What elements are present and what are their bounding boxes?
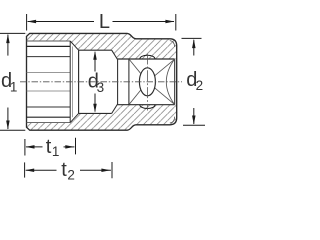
dimension d3 arrow down bbox=[93, 104, 97, 113]
dimension d1 line lower segment bbox=[7, 108, 9, 130]
drive square right edge bbox=[174, 59, 176, 105]
end face rim top-right arc bbox=[170, 41, 175, 47]
bore end second line bbox=[71, 46, 73, 117]
chamber top-right chamfer bbox=[112, 50, 118, 59]
dimension t1 arrow right bbox=[65, 145, 74, 149]
dimension t2 line right segment bbox=[80, 169, 111, 171]
hatched section area: top wall bbox=[27, 33, 177, 59]
dimension d1 extension line bottom bbox=[0, 129, 25, 131]
dimension d2 extension line bottom bbox=[183, 124, 205, 126]
horizontal centerline bbox=[20, 81, 182, 83]
12pt bore inner edge bottom bbox=[27, 122, 71, 124]
svg-text:2: 2 bbox=[196, 78, 204, 93]
12pt bore inner edge top bbox=[27, 40, 71, 42]
drive square left edge bbox=[128, 59, 130, 105]
dimension d3 arrow up bbox=[93, 51, 97, 60]
pin hole ellipse bbox=[139, 68, 155, 96]
12pt profile line top 4 bbox=[27, 72, 71, 74]
12pt profile line bottom 3 bbox=[27, 106, 71, 108]
12pt profile line bottom 4 bbox=[27, 90, 71, 92]
dimension t2 arrow left bbox=[25, 169, 34, 173]
dimension t1 arrow left bbox=[26, 145, 35, 149]
dimension d2 arrow down bbox=[192, 116, 196, 125]
chamber top wall bbox=[79, 49, 112, 51]
cone transition top bbox=[70, 41, 78, 50]
dimension d1 arrow up bbox=[6, 34, 9, 43]
dimension d2 extension line top bbox=[182, 37, 202, 39]
svg-text:3: 3 bbox=[97, 80, 105, 95]
dimension t2 extension bar right bbox=[111, 162, 113, 178]
chamber bottom wall bbox=[79, 112, 112, 114]
dimension t1 line left segment bbox=[26, 146, 43, 148]
dimension L extension line left bbox=[26, 14, 28, 31]
drive square top edge bbox=[117, 58, 174, 60]
dimension d3 line upper segment bbox=[94, 52, 96, 71]
vertical centerline of end view bbox=[146, 54, 148, 111]
dimension d2 line upper segment bbox=[193, 40, 195, 56]
X diagonal lower-left bbox=[129, 90, 141, 104]
svg-text:1: 1 bbox=[10, 79, 18, 94]
chamber right wall bbox=[117, 60, 119, 104]
dimension d2 arrow up bbox=[192, 39, 196, 48]
hatched section area: bottom wall bbox=[27, 104, 177, 130]
X diagonal upper-right bbox=[155, 59, 175, 75]
dimension L extension line right bbox=[175, 14, 177, 31]
socket body outline bbox=[27, 33, 177, 130]
12pt profile line top 2 bbox=[27, 45, 71, 47]
svg-text:t: t bbox=[61, 159, 67, 181]
drive square bottom edge bbox=[117, 104, 174, 106]
dimension d1 arrow down bbox=[6, 121, 9, 130]
dimension t2 line left segment bbox=[26, 169, 57, 171]
ball notch top bbox=[140, 55, 155, 59]
dimension d1 extension line top bbox=[0, 32, 25, 34]
dimension L arrow right bbox=[165, 20, 174, 24]
dimension d2 line lower segment bbox=[193, 108, 195, 124]
12pt profile line top 3 bbox=[27, 56, 71, 58]
dimension t1 extension bar right bbox=[75, 138, 77, 155]
12pt profile line bottom 2 bbox=[27, 116, 71, 118]
bore projection arc right bbox=[166, 59, 174, 105]
dimension t2 extension bar left bbox=[24, 162, 26, 177]
dimension L arrow left bbox=[27, 20, 36, 24]
dimension d3 line lower segment bbox=[94, 94, 96, 112]
end face rim bottom-right arc bbox=[170, 117, 175, 123]
dimension L line right segment bbox=[113, 21, 175, 23]
X diagonal upper-left bbox=[129, 59, 141, 73]
cone transition bottom bbox=[70, 113, 78, 122]
square drive chamber left wall bbox=[78, 50, 80, 113]
svg-text:2: 2 bbox=[67, 168, 75, 183]
ball notch bottom bbox=[140, 105, 155, 109]
svg-text:L: L bbox=[99, 11, 110, 33]
dimension t1 line right segment bbox=[64, 146, 75, 148]
X diagonal lower-right bbox=[155, 88, 175, 105]
dimension t1 extension bar left bbox=[24, 139, 26, 156]
svg-text:1: 1 bbox=[52, 144, 60, 159]
12pt bore end wall bbox=[69, 41, 71, 123]
svg-text:t: t bbox=[46, 136, 52, 158]
dimension d1 line upper segment bbox=[7, 35, 9, 56]
dimension t2 arrow right bbox=[101, 169, 110, 173]
chamber bottom-right chamfer bbox=[112, 104, 118, 113]
dimension L line left segment bbox=[28, 21, 94, 23]
